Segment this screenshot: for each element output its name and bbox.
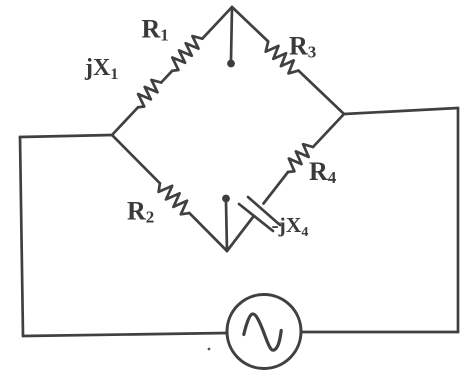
wire: left edge vertical <box>20 137 23 336</box>
wire: bottom vertex up to capacitor <box>227 217 253 251</box>
wire: left vertex to jX1 <box>112 107 138 135</box>
AC source circle <box>227 295 301 369</box>
wire: R2 to bottom vertex <box>189 213 227 251</box>
wire: top vertex to R3 <box>232 7 268 42</box>
resistor R1 zigzag <box>172 36 202 71</box>
wire: between jX1 and R1 <box>161 71 172 83</box>
wire: bottom wire from AC source to bottom-right corner <box>301 331 458 334</box>
resistor R3 zigzag <box>266 42 299 74</box>
svg-text:R2: R2 <box>127 197 154 227</box>
wire: top-right corner to right vertex <box>344 108 458 114</box>
resistor jX1 zigzag <box>138 80 161 107</box>
svg-text:R3: R3 <box>289 32 316 62</box>
wire: capacitor to R4 <box>264 172 289 204</box>
svg-text:R4: R4 <box>309 157 337 187</box>
node: upper detector dot <box>227 60 235 68</box>
wire: bottom wire from left corner to AC source <box>23 333 227 336</box>
wire: R4 to right vertex <box>313 114 344 147</box>
wire: right edge vertical <box>457 108 460 332</box>
capacitor -jX4 lower plate <box>239 204 273 231</box>
wire: detector lead to bottom vertex <box>226 202 227 251</box>
svg-text:-jX4: -jX4 <box>272 213 309 240</box>
svg-text:jX1: jX1 <box>84 55 118 83</box>
wire: R1 to top vertex <box>202 7 232 39</box>
resistor R2 zigzag <box>159 183 190 214</box>
AC source sine wave <box>244 314 281 350</box>
resistor R4 zigzag <box>288 144 313 172</box>
speck mark <box>208 348 211 351</box>
wire: left vertex to R2 <box>112 135 160 183</box>
wire: left vertex to top-left corner of outer loop <box>20 135 112 137</box>
wire: R3 to right vertex <box>299 71 345 114</box>
wire: detector lead from top vertex <box>231 7 232 60</box>
svg-text:R1: R1 <box>142 15 169 45</box>
node: lower detector dot <box>222 195 230 203</box>
capacitor -jX4 upper plate <box>248 197 280 225</box>
